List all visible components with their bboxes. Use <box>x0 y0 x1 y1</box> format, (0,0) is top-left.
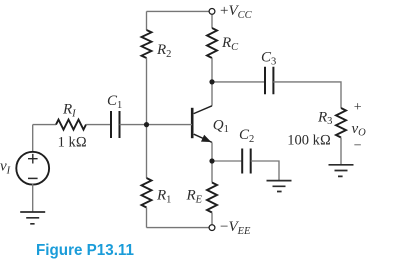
wire collector node down to transistor collector <box>211 82 213 106</box>
wire bottom rail to -Vee terminal <box>147 227 210 229</box>
ground under C2 <box>267 181 292 192</box>
svg-text:+: + <box>354 100 362 115</box>
wire R2 bottom through base node to R1 top <box>146 58 148 178</box>
wire RC bottom to collector node <box>211 58 213 82</box>
source plus sign <box>28 154 38 164</box>
svg-text:C2: C2 <box>239 127 254 145</box>
wire source bottom to ground <box>32 184 34 212</box>
wire emitter to emitter node <box>211 142 213 161</box>
terminal +Vcc open circle <box>209 9 215 15</box>
resistor R2 <box>142 30 152 58</box>
svg-text:+VCC: +VCC <box>220 3 253 21</box>
svg-text:−: − <box>354 138 362 153</box>
svg-text:R3: R3 <box>317 109 332 127</box>
wire collector node to C3 <box>212 81 264 83</box>
source minus sign <box>28 177 38 179</box>
wire emitter node to C2 <box>212 160 242 162</box>
wire C2 to ground corner <box>251 161 279 180</box>
transistor Q1 <box>192 106 212 143</box>
ground under R3 <box>329 165 354 177</box>
svg-text:R1: R1 <box>156 188 171 206</box>
wire top rail from R2 top to +Vcc terminal <box>147 10 210 12</box>
resistor RC <box>207 28 217 58</box>
capacitor C3 <box>265 67 273 94</box>
svg-text:C3: C3 <box>261 50 276 68</box>
svg-text:Figure P13.11: Figure P13.11 <box>36 242 134 259</box>
svg-text:100 kΩ: 100 kΩ <box>287 132 331 148</box>
capacitor C2 <box>242 149 251 174</box>
wire R1 bottom to bottom rail <box>146 208 148 228</box>
source vI circle <box>16 152 49 185</box>
ground under source <box>20 212 45 224</box>
svg-text:R2: R2 <box>156 42 171 60</box>
node collector junction <box>209 79 214 84</box>
svg-text:RC: RC <box>221 35 239 53</box>
wire R3 bottom to ground <box>340 138 342 165</box>
node emitter junction <box>209 158 214 163</box>
svg-text:RE: RE <box>186 188 203 206</box>
svg-text:Q1: Q1 <box>213 117 229 135</box>
resistor RE <box>207 183 217 213</box>
node base junction <box>144 122 149 127</box>
wire RE bottom to -Vee terminal <box>211 213 213 225</box>
wire emitter node to RE <box>211 161 213 183</box>
wire input from source to RI <box>33 124 56 126</box>
wire source top vertical <box>32 125 34 152</box>
svg-text:RI: RI <box>62 102 76 120</box>
wire C3 to R3 corner <box>273 82 341 108</box>
svg-text:vO: vO <box>352 121 367 139</box>
svg-text:C1: C1 <box>107 93 122 111</box>
terminal -Vee open circle <box>209 225 215 231</box>
wire RI to C1 <box>86 124 111 126</box>
wire R2 branch top vertical <box>146 11 148 30</box>
wire Rc branch from +Vcc <box>211 14 213 28</box>
wire C1 through base node to transistor base <box>120 124 193 126</box>
resistor R3 <box>336 108 346 138</box>
svg-text:−VEE: −VEE <box>220 219 251 237</box>
resistor R1 <box>142 178 152 208</box>
svg-text:1 kΩ: 1 kΩ <box>58 134 87 150</box>
capacitor C1 <box>111 111 120 138</box>
resistor RI 1 kOhm <box>56 120 86 130</box>
svg-text:vI: vI <box>0 159 11 177</box>
